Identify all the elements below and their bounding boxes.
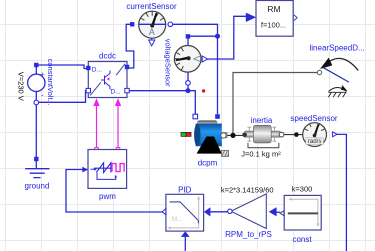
svg-text:D...: D... [92, 66, 102, 73]
svg-text:pwm: pwm [99, 192, 116, 201]
speedSensor [290, 114, 337, 147]
wire inertia.flange_b to speedSensor.flange [284, 134, 303, 136]
wire dcpm.flange to inertia.flange_a [226, 134, 242, 136]
voltage source constantVoltage [17, 59, 55, 106]
svg-text:-: - [41, 91, 44, 100]
wire source.n to dcdc.pin_n [36, 91, 88, 103]
shaft-sensor junction dot [294, 132, 299, 137]
fire wire pwm to dcdc gate 2 [115, 98, 121, 151]
svg-text:const: const [292, 235, 312, 244]
svg-text:f=100...: f=100... [261, 21, 286, 30]
svg-text:inertia: inertia [251, 116, 273, 125]
svg-text:V: V [191, 56, 201, 62]
svg-text:PID: PID [178, 185, 192, 194]
ground [25, 157, 50, 191]
svg-text:voltageSensor: voltageSensor [163, 39, 172, 87]
svg-text:rad/s: rad/s [308, 138, 322, 145]
svg-text:+: + [40, 70, 45, 79]
node B junction dot [186, 88, 191, 93]
svg-text:ground: ground [25, 182, 50, 191]
inertia [241, 116, 284, 159]
wire voltageSensor.v to RM.u [207, 16, 247, 59]
svg-text:speedSensor: speedSensor [290, 114, 337, 123]
wire currentSensor.n to node A to dcpm.pin_ap [170, 24, 217, 114]
dcdc converter block [86, 52, 129, 98]
wire voltageSensor.n to node B [187, 72, 189, 91]
const block [280, 184, 321, 244]
pwm block [82, 150, 126, 201]
currentSensor [126, 2, 177, 46]
PID block [162, 185, 210, 237]
wire linearSpeedDependentTorque.flange to shaft node [233, 73, 317, 134]
svg-text:RPM_to_rPS: RPM_to_rPS [225, 230, 272, 239]
wire source.n to ground [35, 103, 37, 158]
shaft node junction dot [230, 133, 235, 138]
svg-text:k=2*3.14159/60: k=2*3.14159/60 [221, 185, 274, 194]
voltageSensor [163, 34, 207, 87]
wire source.p to dcdc.pin_p [36, 65, 86, 69]
svg-text:linearSpeedD...: linearSpeedD... [310, 44, 365, 53]
svg-text:constantVolt...: constantVolt... [46, 59, 55, 106]
gain RPM_to_rPS [221, 185, 277, 239]
svg-text:D...: D... [111, 88, 121, 95]
svg-text:dcdc: dcdc [99, 52, 116, 61]
wire to PID.u_m from bottom [184, 237, 186, 251]
wire PID.y to pwm.dutyCycle [66, 170, 163, 213]
wire dcdc.pin_nBat to dcpm.pin_an [127, 91, 195, 114]
svg-text:V=230 V: V=230 V [17, 72, 26, 101]
error marker red dot [202, 89, 205, 92]
wire speedSensor.w to PID.u_m [337, 134, 347, 251]
fire wire pwm to dcdc gate 1 [93, 98, 99, 151]
svg-text:J=0.1 kg m²: J=0.1 kg m² [241, 150, 281, 159]
RM block [246, 1, 297, 37]
linearSpeedDependentTorque [310, 44, 365, 98]
motor dcpm [181, 114, 229, 167]
svg-text:currentSensor: currentSensor [126, 2, 177, 11]
wire const.y to gain.u [276, 211, 280, 213]
wire dcdc.pin_pBat to currentSensor.p [126, 24, 134, 68]
svg-text:k=300: k=300 [292, 184, 313, 193]
wire node A to voltageSensor.p [188, 36, 218, 45]
node A junction dot [215, 34, 220, 39]
svg-text:.M...: .M... [170, 216, 183, 223]
svg-text:dcpm: dcpm [198, 159, 218, 168]
wire gain.y to PID.u_s [210, 211, 228, 213]
svg-text:A: A [149, 27, 155, 37]
svg-text:RM: RM [267, 4, 280, 14]
